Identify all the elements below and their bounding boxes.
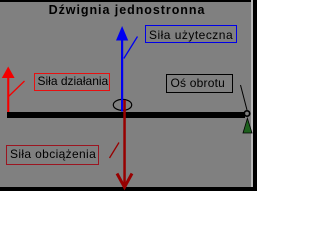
right border — [253, 0, 257, 191]
red leader line to Sila dzialania box — [9, 81, 25, 97]
blue arrowhead — [116, 26, 128, 41]
right inner light line — [251, 0, 253, 187]
red action force arrowhead — [2, 67, 15, 79]
label box: Os obrotu — [166, 74, 233, 93]
fulcrum triangle — [243, 118, 252, 133]
blue useful force arrow (Sila uzyteczna) shaft — [121, 38, 123, 112]
ellipse around force application point — [113, 99, 131, 110]
lever bar — [7, 112, 245, 118]
red action force arrow (Sila dzialania) shaft — [7, 75, 9, 112]
label box: Sila uzyteczna — [145, 25, 237, 43]
pivot leader line from Os obrotu box — [241, 85, 248, 110]
label box: Sila obciazenia — [6, 145, 99, 165]
bottom border — [0, 187, 257, 191]
title: Dzwignia jednostronna — [0, 3, 256, 17]
dark red barbed arrowhead — [117, 174, 132, 188]
label box: Sila dzialania — [34, 73, 110, 91]
blue leader line to Sila uzyteczna box — [124, 37, 138, 59]
pivot circle — [244, 111, 249, 116]
dark red load force arrow (Sila obciazenia) shaft — [123, 100, 126, 187]
top border — [0, 0, 252, 2]
dark red leader line to Sila obciazenia box — [110, 143, 120, 159]
